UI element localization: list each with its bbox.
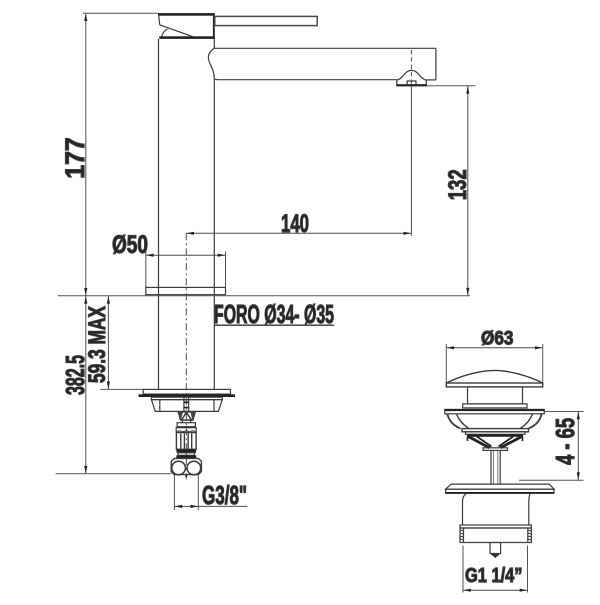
faucet handle left edge [159, 15, 160, 25]
base plate escutcheon [146, 287, 226, 294]
drain bottom plate band [446, 489, 554, 493]
mounting nut top [151, 397, 222, 399]
aerator extension line solid [410, 91, 412, 236]
drain neck ring [463, 404, 527, 408]
faucet handle right edge [213, 13, 215, 39]
faucet body right edge lower [213, 79, 215, 390]
hose light band [178, 453, 195, 456]
drain stem right [499, 450, 501, 484]
drain skirt left [463, 494, 467, 525]
drain seat ring [462, 429, 529, 432]
Ø63 extension line left [445, 344, 447, 383]
funnel inner V [182, 412, 192, 420]
drain pin [490, 543, 501, 554]
faucet body centerline dashed [185, 233, 187, 476]
G1 1/4 extension line left [462, 546, 464, 593]
drain truss dark band [467, 434, 523, 437]
G3/8 extension line right [197, 475, 199, 510]
aerator dome [397, 70, 427, 84]
4-65 extension line top [544, 411, 584, 413]
threaded stud right [188, 397, 190, 412]
dimension line G3/8 with leader [174, 505, 247, 507]
faucet handle inner diagonal [160, 25, 193, 37]
hose nut circle left [172, 461, 186, 475]
spout top edge [214, 47, 436, 49]
extension line at flange top [100, 388, 143, 390]
hose dark band 2 [176, 455, 196, 458]
drain cap neck [468, 387, 523, 404]
drain seat band [466, 432, 526, 435]
drain skirt right [529, 494, 530, 525]
dimension line 132 [467, 86, 469, 296]
drain flange dark top edge [445, 409, 545, 411]
faucet handle bottom bar [159, 36, 214, 39]
arrow down at counter (177) [84, 288, 87, 295]
funnel corner shade right [191, 412, 196, 420]
svg-text:Ø63: Ø63 [481, 329, 513, 350]
arrow up at counter (382.5) [84, 296, 87, 303]
thread inner line left [463, 528, 465, 543]
thread inner line right [527, 528, 529, 543]
hose dark band [176, 449, 196, 452]
truss edge tick left [467, 437, 469, 441]
thread shoulder [460, 525, 531, 528]
dimension line 4-65 [577, 412, 579, 481]
drain pin tip [490, 554, 501, 559]
thread hatch right [528, 530, 532, 540]
dimension line 59.3 MAX [107, 296, 109, 390]
hose collar 1 [177, 423, 195, 427]
drain bell inner right [520, 414, 533, 429]
spout bottom edge [220, 79, 398, 81]
drain stem inner right [497, 450, 499, 484]
dimension line 177 / 382.5 vertical [85, 13, 87, 474]
extension line at aerator bottom [427, 85, 476, 87]
centerline end tick [185, 475, 188, 481]
mounting nut body [151, 400, 222, 412]
collar1 dark bottom [177, 426, 195, 427]
arrow down at hose end (382.5) [84, 466, 87, 473]
svg-text:4 - 65: 4 - 65 [550, 418, 580, 465]
extension line at hose end [56, 473, 172, 475]
under-counter flange washer [143, 389, 230, 394]
drain bottom plate [446, 484, 554, 489]
G3/8 extension line left [173, 475, 175, 510]
nut chamfer line right [213, 400, 215, 412]
drain cap brim [446, 383, 542, 387]
spout right end edge [435, 48, 437, 80]
svg-text:G1 1/4”: G1 1/4” [465, 564, 523, 587]
svg-text:59.3 MAX: 59.3 MAX [84, 306, 111, 383]
truss edge tick right [522, 437, 524, 441]
faucet handle base arc [162, 29, 168, 38]
spout underside right of aerator [426, 79, 436, 81]
aerator notch [407, 81, 416, 85]
G1 1/4 extension line right [527, 546, 529, 593]
Ø50 extension line right [225, 252, 227, 288]
barrel rib lines [180, 434, 182, 449]
handle lever bar [215, 16, 317, 25]
dimension line G1 1/4 [463, 589, 528, 591]
svg-text:G3/8": G3/8" [202, 480, 247, 510]
hose funnel cone [178, 412, 195, 420]
dimension line Ø50 [146, 254, 226, 256]
rubber gasket dark bar [139, 394, 235, 397]
Ø63 extension line right [542, 344, 544, 383]
hose stem [181, 420, 183, 423]
svg-text:Ø50: Ø50 [112, 231, 148, 259]
threaded body [460, 528, 531, 543]
spout neck fillet curve [208, 48, 219, 79]
thread hatch left [460, 530, 464, 540]
funnel corner shade left [178, 412, 183, 420]
dimension line Ø63 [446, 347, 542, 349]
arrow up at handle top [84, 14, 87, 21]
drain stem left [490, 450, 492, 484]
counter surface line [58, 295, 471, 297]
aerator centerline dashed [410, 50, 412, 91]
stud thread ticks [184, 401, 189, 403]
faucet body right edge upper [213, 39, 215, 48]
truss diagonal inner left [477, 437, 492, 447]
drain wide flange [445, 409, 545, 413]
Ø50 extension line left [145, 252, 147, 288]
drain bell outer right [529, 414, 542, 429]
drain bell inner left [457, 414, 470, 429]
truss diagonal outer right [501, 437, 522, 448]
threaded stud left [183, 397, 185, 412]
drain stem inner left [492, 450, 494, 484]
drain cap dome [447, 370, 543, 383]
hose nut block [171, 458, 201, 474]
svg-text:140: 140 [281, 210, 309, 238]
dimension line 140 [186, 232, 411, 234]
nut chamfer line left [159, 400, 161, 412]
aerator bottom thick bar [396, 85, 427, 87]
4-65 extension line bottom [519, 479, 584, 481]
plate band dark bottom edge [446, 492, 554, 494]
hose barrel [176, 433, 196, 450]
hose nut circle right [187, 461, 201, 475]
faucet handle top bar [158, 13, 215, 16]
extension line at handle top [83, 12, 159, 14]
collar2 scallops [176, 431, 196, 432]
hose collar 2 [176, 428, 196, 433]
faucet body left edge [158, 39, 160, 390]
stem top collar [483, 448, 508, 451]
svg-text:177: 177 [60, 137, 90, 179]
truss diagonal inner right [499, 437, 514, 447]
truss diagonal outer left [469, 437, 490, 448]
svg-text:132: 132 [444, 169, 472, 200]
FORO underline [214, 324, 334, 326]
drain bell outer left [447, 414, 460, 429]
